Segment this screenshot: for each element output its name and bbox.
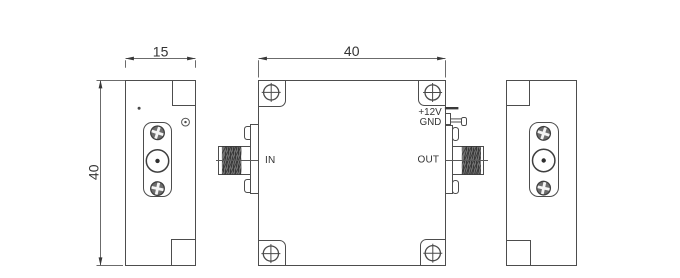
IN connector flange plate xyxy=(251,125,259,194)
corner tab bottom-right xyxy=(421,240,446,266)
right view SMA center conductor xyxy=(533,149,555,171)
svg-text:40: 40 xyxy=(86,164,102,180)
front view body xyxy=(259,81,446,266)
OUT connector center line xyxy=(446,160,489,162)
left view flange screw top xyxy=(149,124,166,141)
dimension 40 (front view width) xyxy=(259,59,446,78)
left side view body xyxy=(126,81,196,266)
OUT connector barrel xyxy=(453,147,484,175)
IN connector bottom mounting tab xyxy=(245,180,254,193)
IN connector top mounting tab xyxy=(245,127,254,140)
OUT connector bottom mounting tab xyxy=(453,181,459,194)
left view SMA center conductor xyxy=(146,150,168,172)
svg-text:OUT: OUT xyxy=(417,155,439,166)
right view flange screw bottom xyxy=(536,180,552,196)
right view flange screw top xyxy=(535,125,552,142)
corner tab bottom-left xyxy=(259,241,286,266)
IN connector barrel xyxy=(219,147,251,175)
corner tab top-left xyxy=(259,81,286,107)
GND feedthrough cap xyxy=(462,118,467,126)
svg-text:IN: IN xyxy=(265,155,275,166)
svg-text:15: 15 xyxy=(153,43,169,59)
OUT connector top mounting tab xyxy=(453,128,459,141)
OUT connector threads xyxy=(458,146,487,175)
corner screw top-left xyxy=(262,83,281,102)
right view bottom-left notch xyxy=(507,241,531,266)
dimension 40 (left view height) xyxy=(97,80,126,266)
corner screw bottom-left xyxy=(261,244,280,263)
OUT connector flange plate xyxy=(446,126,453,194)
left view flange screw bottom xyxy=(149,181,165,197)
IN connector threads xyxy=(218,146,247,175)
GND feedthrough insulator block xyxy=(446,114,451,125)
right view top-left notch xyxy=(507,81,530,106)
corner screw bottom-right xyxy=(423,244,442,263)
left view screw hole xyxy=(182,118,190,126)
left view top-right notch xyxy=(173,81,196,106)
corner tab top-right xyxy=(419,81,446,106)
corner screw top-right xyxy=(423,83,442,102)
dimension 15 (left view width) xyxy=(126,59,196,68)
right side view body xyxy=(507,81,577,266)
left view SMA flange xyxy=(144,123,172,197)
IN connector center line xyxy=(216,160,259,162)
svg-text:40: 40 xyxy=(344,43,360,59)
svg-text:GND: GND xyxy=(420,117,442,128)
right view SMA flange xyxy=(530,123,559,197)
left view pilot dot xyxy=(138,107,141,110)
left view bottom-right notch xyxy=(172,240,196,266)
+12V feedthrough pin xyxy=(445,107,459,109)
GND feedthrough pin xyxy=(451,119,462,122)
